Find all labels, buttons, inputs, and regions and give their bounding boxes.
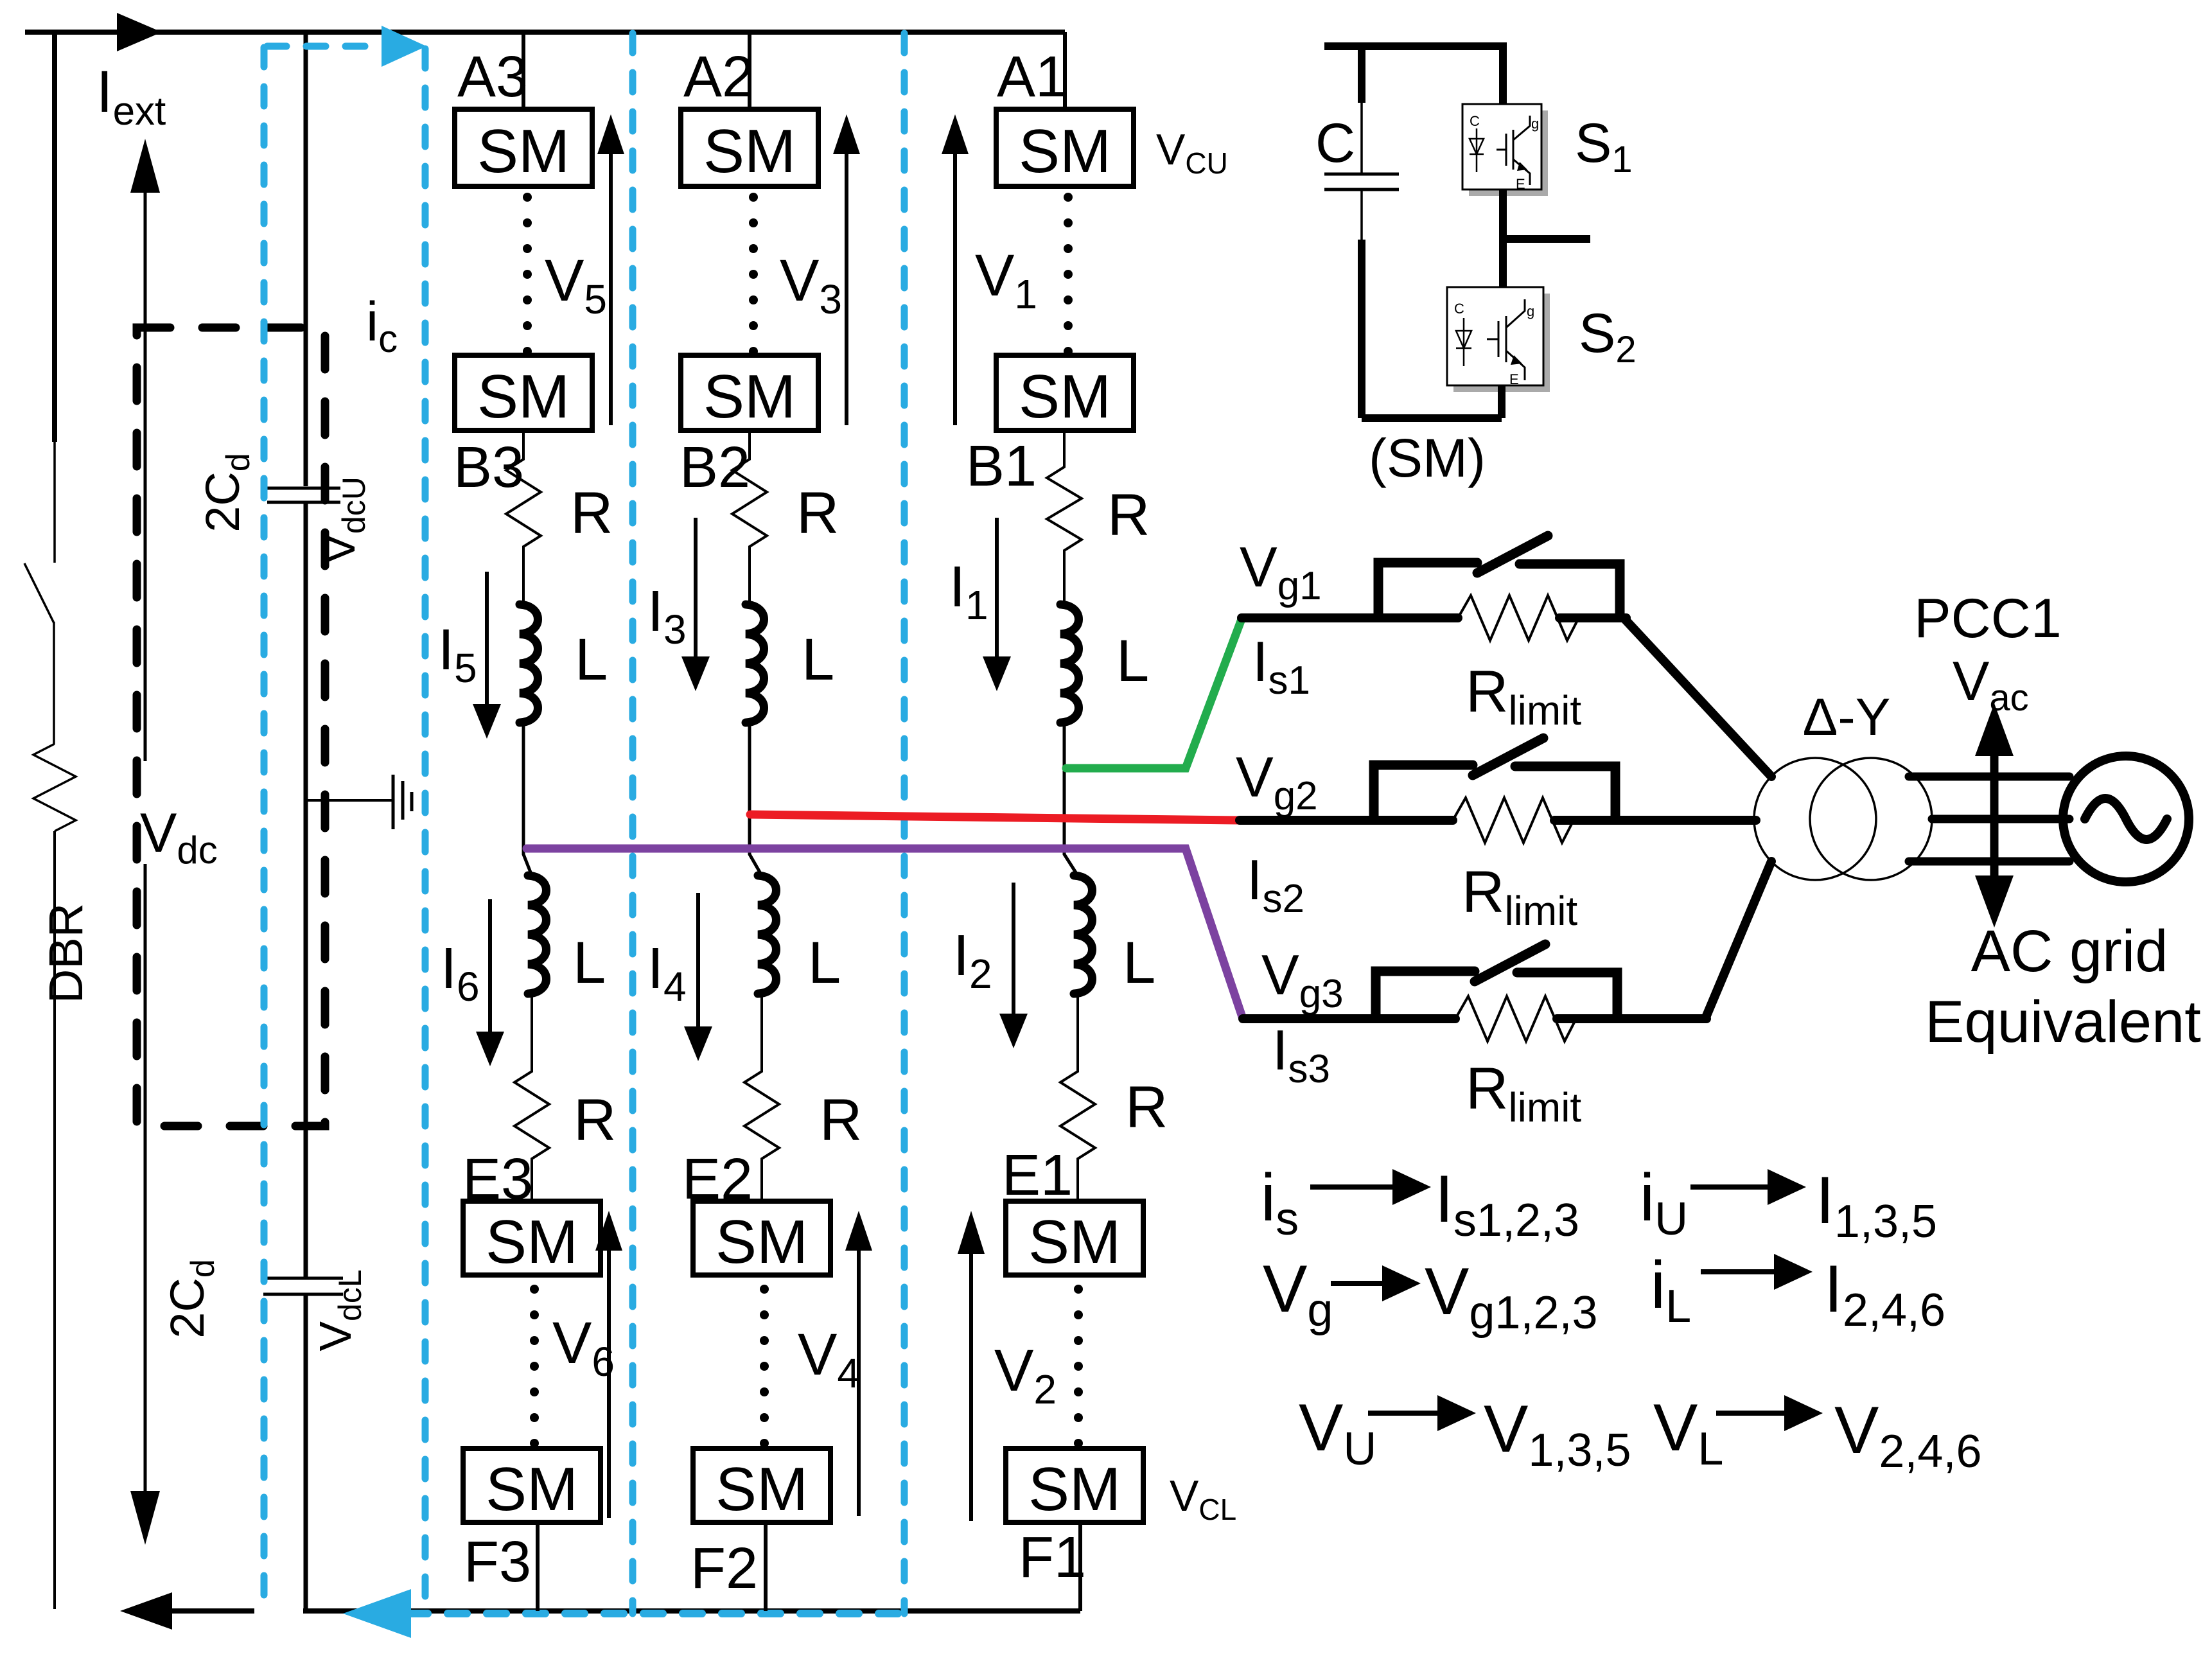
svg-text:SM: SM	[1019, 362, 1111, 431]
svg-text:E1: E1	[1002, 1143, 1073, 1208]
svg-text:C: C	[1454, 301, 1464, 317]
svg-text:L: L	[575, 627, 608, 692]
wire Vg3 purple	[527, 849, 1243, 1019]
submodule SM (F2)	[693, 1448, 830, 1522]
wire Vdc arrow line lower segment	[144, 864, 147, 1495]
wire phase1 to transformer	[1624, 618, 1771, 777]
inductor L upper arm 3	[520, 604, 538, 723]
IGBT module S1	[1462, 104, 1548, 196]
wire to S1	[1499, 42, 1507, 104]
wire bottom DC bus	[303, 1608, 1080, 1614]
wire F2 to bottom bus	[764, 1522, 768, 1611]
svg-text:R: R	[1107, 482, 1150, 548]
wire phase2 main	[1240, 816, 1453, 825]
svg-text:F2: F2	[690, 1536, 758, 1601]
blue dashed vertical 4	[901, 33, 908, 1614]
switch SW2 bypass	[1374, 765, 1473, 818]
transformer D-Y winding 1	[1754, 758, 1876, 880]
svg-text:SM: SM	[703, 362, 796, 431]
submodule SM (A1 top)	[996, 109, 1134, 186]
wire phase3 main	[1243, 1014, 1455, 1023]
wire phase1 after resistor	[1559, 613, 1626, 622]
wire grid line a	[1909, 773, 2069, 781]
resistor R upper arm 3	[506, 430, 541, 604]
capacitor 2Cd lower	[263, 1277, 343, 1280]
submodule SM (B2)	[681, 355, 818, 430]
blue dashed bottom horizontal with arrow	[408, 1610, 904, 1617]
svg-text:F3: F3	[464, 1530, 531, 1594]
submodule SM (A3 top)	[455, 109, 592, 186]
svg-text:SM: SM	[1019, 117, 1111, 186]
dotted continuation upper arm 3	[523, 193, 532, 356]
arrow Vac double measurement	[1990, 748, 1999, 883]
AC source circle	[2063, 756, 2189, 882]
blue dashed vertical 3	[629, 33, 636, 1614]
resistor DBR	[33, 744, 76, 831]
wire phase3 to transformer	[1705, 861, 1771, 1019]
dotted continuation lower arm 3	[530, 1285, 539, 1448]
svg-text:B3: B3	[453, 435, 524, 500]
AC source sine	[2085, 798, 2167, 840]
submodule SM (F3)	[463, 1448, 601, 1522]
arrow I4	[696, 893, 700, 1028]
wire bus to SM A3	[522, 32, 525, 109]
resistor R upper arm 2	[732, 430, 767, 604]
svg-text:SM: SM	[1028, 1455, 1121, 1524]
svg-text:L: L	[808, 930, 841, 996]
svg-text:R: R	[574, 1087, 616, 1153]
arrow I5	[485, 572, 489, 705]
svg-text:SM: SM	[486, 1208, 578, 1276]
svg-text:PCC1: PCC1	[1914, 588, 2061, 649]
wire DBR to bottom	[53, 831, 56, 1609]
capacitor C plates	[1324, 173, 1399, 176]
wire Vg2 red	[750, 814, 1240, 820]
svg-text:R: R	[796, 480, 839, 546]
wire upper arm 1 to node	[1064, 723, 1078, 875]
arrow I2	[1012, 883, 1015, 1015]
resistor R lower arm 3	[514, 994, 549, 1201]
svg-text:AC grid: AC grid	[1971, 919, 2168, 984]
svg-text:SM: SM	[477, 362, 570, 431]
wire F3 to bottom bus	[536, 1522, 540, 1611]
submodule SM (E1)	[1006, 1201, 1143, 1275]
svg-text:SM: SM	[486, 1455, 578, 1524]
wire F1 to bottom bus	[1078, 1522, 1082, 1611]
submodule SM (B3 bottom of upper arm)	[455, 355, 592, 430]
capacitor C branch	[1358, 46, 1365, 103]
resistor R lower arm 1	[1060, 994, 1095, 1201]
svg-text:(SM): (SM)	[1369, 428, 1486, 488]
svg-text:C: C	[1470, 113, 1480, 129]
wire below switch	[53, 622, 55, 744]
submodule SM (F1)	[1006, 1448, 1143, 1522]
wire bottom bus left arrow segment	[162, 1608, 254, 1614]
resistor Rlimit 2	[1453, 798, 1574, 843]
arrow V1	[953, 153, 957, 425]
svg-text:R: R	[570, 480, 613, 546]
wire bus to SM A2	[748, 32, 751, 109]
blue dashed vertical 2	[422, 49, 429, 1614]
resistor R lower arm 2	[744, 994, 779, 1201]
arrow I1	[995, 518, 999, 658]
arrow V5	[609, 153, 613, 425]
arrow current direction on top bus	[117, 13, 162, 51]
resistor R upper arm 1	[1047, 430, 1082, 604]
wire S2 to bottom rail	[1498, 385, 1505, 418]
wire Vg1 green	[1066, 619, 1242, 768]
svg-text:g: g	[1527, 303, 1534, 319]
dotted continuation lower arm 2	[760, 1285, 769, 1448]
wire grid line b	[1932, 815, 2069, 823]
wire bus corner to SM A1	[1063, 32, 1067, 109]
node Iext arrow (Vdc measurement arrow top)	[144, 189, 147, 761]
switch SW1 bypass	[1378, 563, 1477, 615]
dotted continuation upper arm 1	[1064, 193, 1073, 356]
wire DC mid-bus vertical	[304, 32, 308, 486]
svg-text:SM: SM	[1028, 1208, 1121, 1276]
submodule SM (B1)	[996, 355, 1134, 430]
switch SW3 bypass	[1376, 971, 1475, 1016]
svg-text:SM: SM	[703, 117, 796, 186]
ground	[306, 799, 392, 802]
arrow V2	[969, 1253, 973, 1521]
svg-text:SM: SM	[715, 1208, 808, 1276]
resistor Rlimit 3	[1455, 996, 1576, 1041]
arrow V6	[607, 1249, 611, 1518]
node Vdc arrow bottom head	[130, 1491, 160, 1545]
wire SM detail bottom rail	[1362, 414, 1502, 422]
svg-text:L: L	[1123, 930, 1155, 996]
wire upper arm 2 to node	[750, 723, 762, 875]
dashed measurement box Vdc	[137, 328, 325, 1126]
svg-text:g: g	[1531, 116, 1539, 132]
arrow I6	[488, 899, 492, 1033]
arrow V3	[845, 153, 848, 425]
svg-text:E: E	[1516, 176, 1525, 192]
arrow V4	[857, 1249, 861, 1516]
wire S1 to S2	[1499, 189, 1507, 287]
blue dashed measurement loop vertical 1	[261, 48, 268, 1605]
wire phase2 after resistor	[1554, 816, 1756, 825]
dotted continuation lower arm 1	[1074, 1285, 1083, 1448]
capacitor 2Cd upper	[267, 487, 340, 490]
wire phase1 main	[1242, 613, 1458, 622]
inductor L lower arm 1	[1074, 875, 1093, 994]
arrow I3	[694, 518, 698, 658]
inductor L lower arm 2	[758, 875, 777, 994]
transformer D-Y winding 2	[1810, 758, 1932, 880]
dotted continuation upper arm 2	[749, 193, 758, 356]
wire left vertical branch upper	[52, 32, 57, 442]
svg-text:B1: B1	[966, 434, 1037, 498]
submodule SM (A2 top)	[681, 109, 818, 186]
svg-text:A2: A2	[683, 45, 754, 109]
inductor L upper arm 1	[1060, 604, 1079, 723]
wire grid line c	[1909, 858, 2069, 866]
svg-text:F1: F1	[1019, 1526, 1086, 1590]
inductor L upper arm 2	[746, 604, 764, 723]
blue dashed top horizontal with arrow	[267, 43, 380, 50]
wire between capacitors	[304, 504, 308, 1278]
svg-text:Equivalent: Equivalent	[1925, 989, 2201, 1055]
svg-text:L: L	[802, 627, 834, 692]
inductor L lower arm 3	[528, 875, 547, 994]
svg-text:C: C	[1315, 112, 1355, 174]
submodule SM (E3)	[463, 1201, 601, 1275]
resistor Rlimit 1	[1458, 595, 1579, 640]
svg-text:Δ-Y: Δ-Y	[1803, 688, 1891, 746]
svg-text:B2: B2	[680, 435, 750, 500]
svg-text:A1: A1	[997, 45, 1067, 109]
wire SM detail top rail	[1324, 42, 1503, 50]
svg-text:R: R	[1125, 1075, 1168, 1140]
svg-text:SM: SM	[477, 117, 570, 186]
svg-text:A3: A3	[457, 45, 528, 109]
svg-text:L: L	[573, 930, 606, 996]
svg-text:L: L	[1116, 628, 1149, 694]
svg-text:SM: SM	[715, 1455, 808, 1524]
switch S_dc blade (left branch)	[53, 442, 56, 563]
svg-text:DBR: DBR	[39, 903, 92, 1003]
wire phase3 after resistor	[1557, 1014, 1707, 1023]
wire mid-bus to bottom	[304, 1296, 308, 1611]
svg-text:E: E	[1509, 371, 1519, 387]
wire SM output stub	[1503, 235, 1590, 243]
submodule SM (E2)	[693, 1201, 830, 1275]
IGBT module S2	[1447, 287, 1550, 392]
svg-text:R: R	[820, 1087, 862, 1153]
wire upper arm 3 to node	[523, 723, 532, 875]
wire top DC bus	[25, 30, 1065, 35]
